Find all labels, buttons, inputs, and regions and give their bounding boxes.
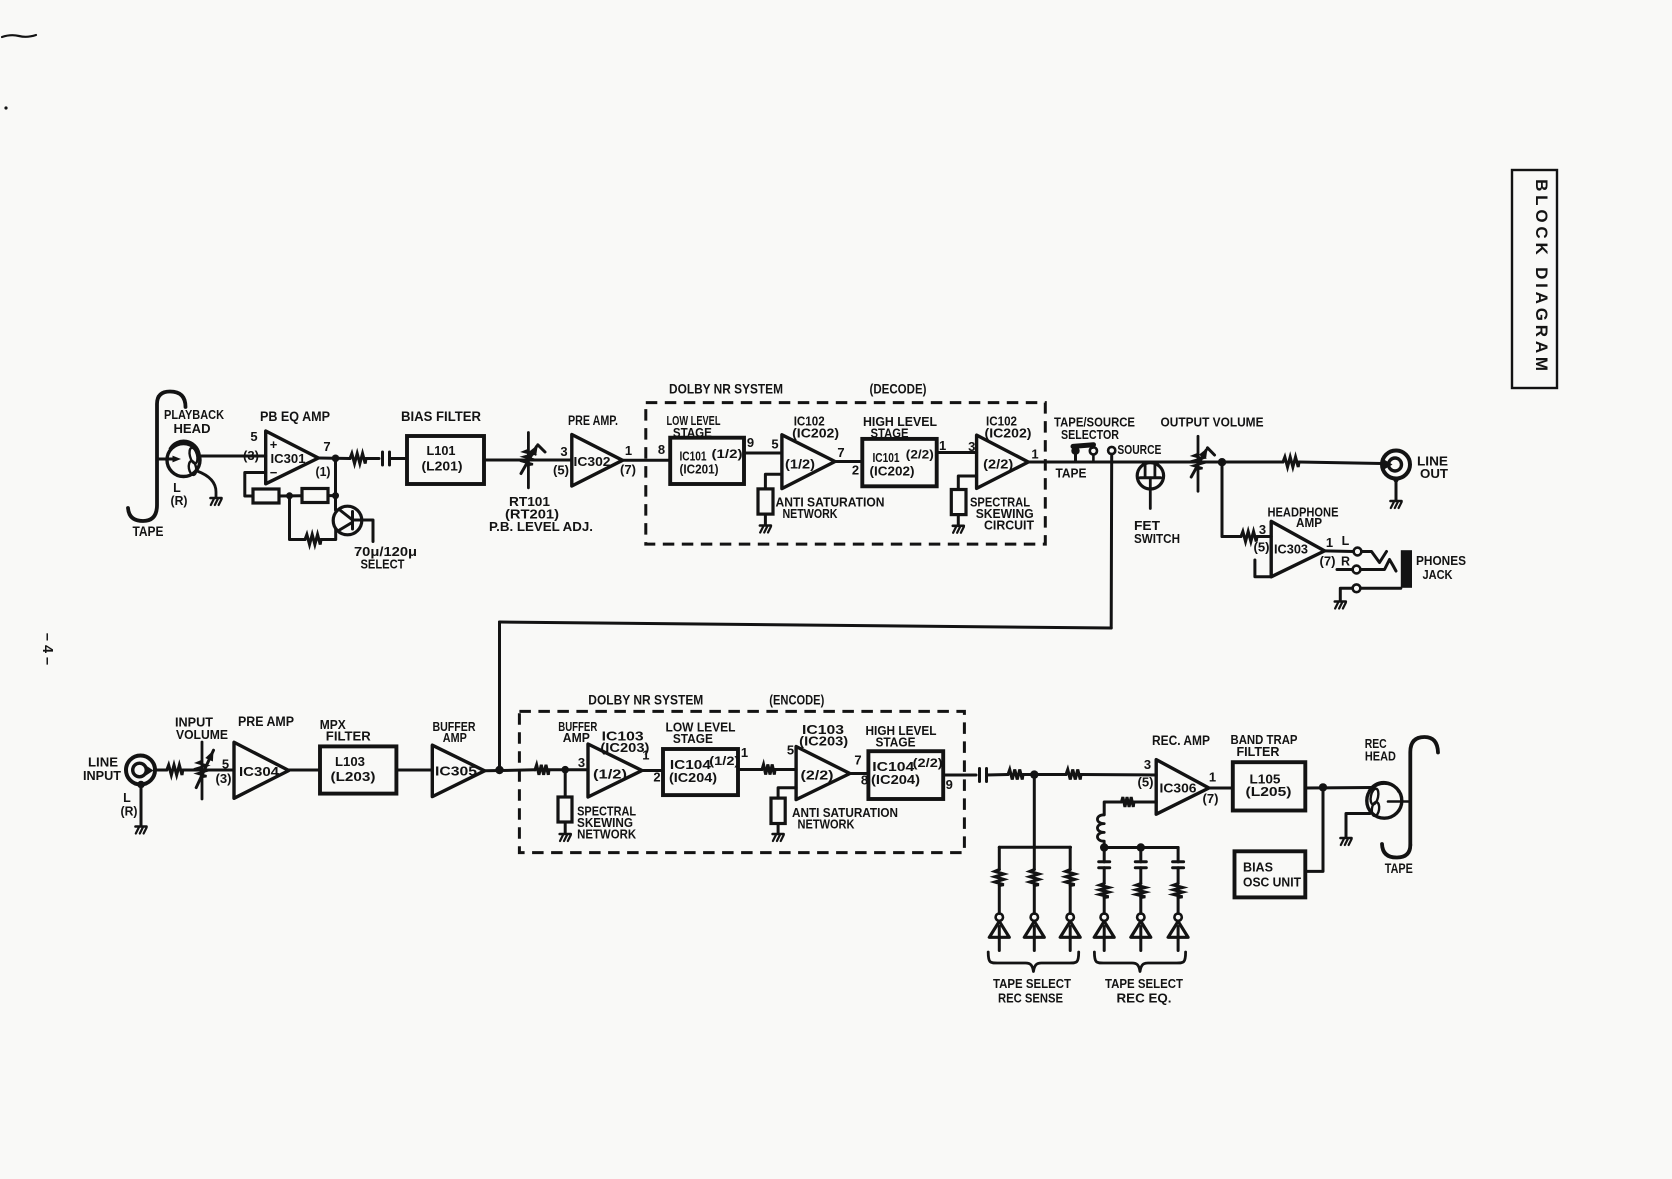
selector tape contact node bbox=[1071, 447, 1079, 455]
wire line out to ground bbox=[1395, 481, 1398, 500]
LINE INPUT jack bbox=[126, 756, 155, 785]
capacitor after IC301 bbox=[381, 452, 384, 465]
dashed box dolby NR decode bbox=[646, 403, 1046, 544]
wire decode output to selector and line out bbox=[1028, 461, 1283, 464]
svg-text:BIAS FILTER: BIAS FILTER bbox=[401, 409, 481, 424]
svg-text:AMP: AMP bbox=[1296, 516, 1322, 530]
svg-text:5: 5 bbox=[771, 437, 778, 452]
wire feedback resistor to output node bbox=[328, 494, 336, 497]
svg-text:(3): (3) bbox=[216, 772, 232, 786]
svg-text:JACK: JACK bbox=[1423, 568, 1453, 582]
svg-text:2: 2 bbox=[852, 463, 859, 478]
svg-text:–4–: –4– bbox=[39, 633, 55, 669]
svg-text:(5): (5) bbox=[1254, 541, 1270, 555]
selector arm bbox=[1073, 445, 1094, 447]
svg-text:SOURCE: SOURCE bbox=[1117, 443, 1161, 457]
wire lower feedback loop bbox=[290, 496, 306, 540]
svg-text:3: 3 bbox=[560, 444, 567, 459]
svg-text:STAGE: STAGE bbox=[871, 426, 909, 441]
svg-text:IC301: IC301 bbox=[271, 452, 306, 466]
feedback resistor IC306 bbox=[1121, 797, 1134, 807]
tape select rec eq element 3 bbox=[1174, 914, 1181, 921]
svg-text:NETWORK: NETWORK bbox=[577, 827, 637, 842]
svg-text:(ENCODE): (ENCODE) bbox=[769, 692, 824, 708]
svg-text:3: 3 bbox=[968, 439, 975, 454]
wire resistor ground encode bbox=[777, 824, 780, 833]
page smudge top-left bbox=[2, 35, 36, 37]
node rec sense junction bbox=[1030, 770, 1038, 778]
svg-text:VOLUME: VOLUME bbox=[176, 728, 228, 742]
BAND TRAP FILTER box L105 bbox=[1233, 762, 1306, 810]
wire capacitor to bias filter bbox=[390, 457, 408, 460]
tape select rec sense element 1 bbox=[996, 914, 1003, 921]
svg-text:PRE AMP.: PRE AMP. bbox=[568, 413, 618, 428]
svg-text:L103: L103 bbox=[335, 754, 365, 769]
svg-text:(L205): (L205) bbox=[1246, 784, 1292, 799]
svg-text:(1): (1) bbox=[316, 465, 331, 479]
svg-text:IC304: IC304 bbox=[239, 765, 279, 779]
resistor lower feedback bbox=[305, 535, 321, 545]
wire amp 1/2 to high level stage bbox=[835, 460, 862, 463]
svg-text:BIAS: BIAS bbox=[1243, 860, 1273, 875]
ground rec head bbox=[1341, 837, 1352, 840]
svg-text:CIRCUIT: CIRCUIT bbox=[984, 518, 1034, 533]
wire transistor to select control bbox=[353, 520, 374, 542]
svg-text:1: 1 bbox=[1031, 447, 1038, 462]
wire resistor to IC304 bbox=[183, 769, 234, 772]
resistor between stages encode bbox=[762, 765, 775, 775]
wire band trap to rec head bbox=[1305, 786, 1372, 790]
svg-text:7: 7 bbox=[854, 753, 861, 768]
ground phones jack bbox=[1335, 600, 1346, 603]
phones L spring contact bbox=[1362, 552, 1387, 563]
op-amp IC306 rec amp bbox=[1156, 760, 1209, 815]
wire IC304 to MPX filter bbox=[289, 769, 320, 772]
wire head to IC301 pin5 bbox=[200, 455, 266, 458]
wire lower loop to transistor bottom bbox=[321, 529, 336, 540]
resistor headphone amp input bbox=[1241, 532, 1257, 542]
svg-text:STAGE: STAGE bbox=[876, 735, 916, 750]
svg-text:IC104: IC104 bbox=[670, 758, 711, 772]
svg-text:(L203): (L203) bbox=[331, 769, 376, 784]
svg-text:SELECT: SELECT bbox=[361, 557, 405, 572]
svg-text:5: 5 bbox=[222, 757, 229, 772]
transistor 70u/120u select switch bbox=[333, 506, 362, 535]
svg-text:OUTPUT VOLUME: OUTPUT VOLUME bbox=[1161, 415, 1264, 430]
svg-text:L: L bbox=[1342, 534, 1350, 548]
MPX FILTER box L103 bbox=[320, 746, 396, 793]
svg-text:IC303: IC303 bbox=[1274, 543, 1308, 557]
rec eq branch 2 resistor bbox=[1136, 884, 1145, 898]
wire sleeve to jack bbox=[1361, 587, 1401, 590]
wire R channel stub bbox=[1337, 568, 1353, 571]
phones L contact bbox=[1354, 548, 1362, 556]
svg-text:(DECODE): (DECODE) bbox=[870, 381, 927, 397]
phones sleeve contact bbox=[1353, 584, 1361, 592]
svg-text:1: 1 bbox=[625, 443, 632, 458]
dashed box dolby NR encode bbox=[519, 711, 964, 852]
ground spectral skewing encode bbox=[560, 833, 571, 836]
svg-text:(1/2): (1/2) bbox=[712, 447, 743, 461]
svg-text:3: 3 bbox=[1144, 757, 1151, 772]
wire resistor to capacitor bbox=[366, 457, 379, 460]
BIAS OSC UNIT box bbox=[1235, 851, 1306, 897]
wire tape to head with arrow bbox=[157, 458, 173, 461]
LOW LEVEL STAGE box IC104 (1/2) bbox=[663, 749, 738, 795]
IC303 ground stub bbox=[1255, 560, 1271, 577]
svg-text:IC306: IC306 bbox=[1160, 781, 1197, 796]
svg-text:1: 1 bbox=[1326, 535, 1333, 550]
svg-text:REC EQ.: REC EQ. bbox=[1117, 991, 1172, 1006]
spectral skewing wire encode bbox=[564, 770, 567, 797]
LOW LEVEL STAGE box IC101 (1/2) bbox=[670, 438, 744, 484]
potentiometer RT101 PB level adj bbox=[527, 433, 530, 488]
capacitor before rec amp bbox=[978, 769, 981, 782]
svg-text:TAPE SELECT: TAPE SELECT bbox=[1105, 976, 1183, 991]
node line input sleeve bbox=[137, 781, 145, 789]
wire MPX to IC305 bbox=[396, 769, 432, 772]
playback head bbox=[167, 444, 200, 477]
wire IC302 to dolby decode bbox=[623, 459, 671, 462]
rec sense branch 3 resistor bbox=[1066, 870, 1075, 886]
svg-text:AMP: AMP bbox=[443, 731, 467, 745]
wire IC305 to dolby encode bbox=[485, 770, 535, 771]
svg-text:STAGE: STAGE bbox=[673, 731, 713, 746]
anti saturation resistor encode bbox=[771, 798, 785, 823]
potentiometer input volume bbox=[201, 742, 204, 799]
feedback resistor R-a box bbox=[253, 489, 279, 503]
wire amp to high level encode bbox=[850, 772, 869, 775]
spectral skewing resistor encode bbox=[558, 797, 572, 822]
svg-text:(IC204): (IC204) bbox=[669, 771, 717, 785]
rec sense branch 1 wire bbox=[998, 847, 1001, 869]
svg-text:(2/2): (2/2) bbox=[801, 769, 834, 783]
svg-text:(5): (5) bbox=[553, 464, 569, 478]
svg-text:(IC202): (IC202) bbox=[985, 426, 1032, 441]
selector fixed contact 1 bbox=[1090, 447, 1097, 454]
feedback wire IC301 inverting input bbox=[245, 473, 266, 497]
svg-text:(2/2): (2/2) bbox=[906, 448, 934, 462]
svg-text:NETWORK: NETWORK bbox=[798, 817, 856, 832]
wire low level to resistor bbox=[738, 768, 762, 771]
wire low level to amp 1/2 bbox=[744, 452, 782, 455]
spectral skewing resistor decode bbox=[951, 490, 966, 515]
node rec eq junction 1 bbox=[1100, 843, 1108, 851]
node after IC305 bbox=[495, 766, 503, 774]
tape select rec sense element 2 bbox=[1031, 914, 1038, 921]
svg-text:FILTER: FILTER bbox=[326, 730, 371, 744]
svg-text:(R): (R) bbox=[121, 805, 138, 819]
feedback wire IC306 bbox=[1134, 801, 1157, 804]
wire IC301 output bbox=[318, 457, 350, 461]
selector source contact bbox=[1108, 447, 1115, 454]
svg-text:(L201): (L201) bbox=[422, 459, 463, 474]
wire sleeve to ground bbox=[1340, 588, 1352, 600]
HIGH LEVEL STAGE box IC101 (2/2) bbox=[862, 439, 936, 486]
resistor into encode box bbox=[535, 765, 549, 775]
svg-text:9: 9 bbox=[747, 435, 754, 450]
op-amp IC302 pre amp bbox=[572, 435, 623, 487]
wire output node down to transistor bbox=[334, 458, 337, 510]
svg-text:SWITCH: SWITCH bbox=[1134, 532, 1180, 546]
phones jack body bbox=[1401, 550, 1412, 588]
rec eq branch 1 capacitor bbox=[1099, 860, 1110, 863]
wire high level to amp 2/2 bbox=[937, 451, 977, 454]
rec sense branch 1 resistor bbox=[995, 870, 1004, 886]
rec eq branch 2 wire bbox=[1139, 848, 1142, 862]
svg-text:IC101: IC101 bbox=[680, 450, 707, 464]
op-amp IC305 buffer amp bbox=[432, 745, 484, 796]
svg-text:PHONES: PHONES bbox=[1416, 554, 1466, 568]
svg-text:REC SENSE: REC SENSE bbox=[998, 991, 1063, 1006]
svg-text:IC305: IC305 bbox=[435, 765, 477, 779]
rec eq branch 2 capacitor bbox=[1135, 860, 1146, 863]
svg-text:(5): (5) bbox=[1138, 776, 1154, 790]
svg-text:TAPE: TAPE bbox=[1056, 467, 1087, 481]
op-amp IC304 pre amp bbox=[234, 742, 289, 798]
svg-text:PLAYBACK: PLAYBACK bbox=[164, 407, 225, 422]
brace tape select rec sense bbox=[988, 952, 1078, 972]
BLOCK DIAGRAM title box bbox=[1512, 170, 1557, 388]
svg-text:1: 1 bbox=[1209, 770, 1216, 785]
svg-text:(IC202): (IC202) bbox=[870, 465, 915, 479]
brace tape select rec eq bbox=[1094, 952, 1185, 972]
node below IC301 output bbox=[332, 492, 339, 499]
resistor after line input bbox=[167, 765, 183, 775]
rec sense branch 2 resistor bbox=[1030, 870, 1039, 886]
svg-text:7: 7 bbox=[323, 439, 330, 454]
wire buffer to low level encode bbox=[642, 769, 663, 772]
svg-text:SELECTOR: SELECTOR bbox=[1061, 428, 1119, 442]
svg-text:(7): (7) bbox=[1320, 555, 1336, 569]
op-amp IC103 (2/2) encode bbox=[796, 747, 850, 800]
spectral skewing wire decode bbox=[958, 476, 976, 490]
wire source monitor horizontal bbox=[500, 622, 1112, 628]
op-amp IC301 PB EQ AMP bbox=[266, 431, 319, 484]
rec eq branch 1 stem bbox=[1103, 848, 1106, 862]
rec eq branch 1 resistor bbox=[1100, 884, 1109, 898]
svg-text:7: 7 bbox=[837, 445, 844, 460]
wire between feedback resistors bbox=[279, 494, 302, 497]
wire to ground anti saturation bbox=[764, 514, 767, 524]
wire bias filter to pre amp bbox=[484, 459, 572, 462]
svg-text:IC302: IC302 bbox=[574, 455, 611, 469]
resistor rec chain 1 bbox=[1008, 770, 1023, 780]
svg-text:(IC201): (IC201) bbox=[680, 463, 719, 477]
svg-text:OSC UNIT: OSC UNIT bbox=[1243, 875, 1301, 890]
wire capacitor to resistor bbox=[987, 773, 1009, 777]
wire resistor to buffer junction bbox=[549, 768, 588, 771]
wire rec eq bus bbox=[1104, 846, 1178, 849]
tape select rec eq element 2 bbox=[1137, 914, 1144, 921]
wire line input to ground bbox=[140, 785, 143, 826]
svg-text:L101: L101 bbox=[427, 443, 456, 458]
wire resistor to ground encode bbox=[564, 822, 567, 833]
svg-text:(3): (3) bbox=[243, 449, 259, 463]
svg-text:AMP: AMP bbox=[563, 731, 590, 745]
feedback resistor R-b box bbox=[302, 489, 328, 503]
wire to ground spectral skewing bbox=[957, 515, 960, 525]
ground under playback head bbox=[211, 497, 222, 500]
node feedback junction A bbox=[286, 492, 293, 499]
wire high level out to capacitor bbox=[943, 774, 976, 777]
rec sense branch 3 wire bbox=[1069, 847, 1072, 869]
HIGH LEVEL STAGE box IC104 (2/2) bbox=[868, 751, 943, 799]
head ground wire bbox=[197, 471, 216, 497]
svg-text:TAPE SELECT: TAPE SELECT bbox=[993, 976, 1071, 991]
svg-text:BLOCK DIAGRAM: BLOCK DIAGRAM bbox=[1532, 179, 1551, 375]
svg-text:(IC202): (IC202) bbox=[792, 426, 839, 441]
anti saturation wire decode bbox=[765, 474, 782, 489]
svg-text:(1/2): (1/2) bbox=[785, 458, 815, 472]
LINE OUT jack bbox=[1382, 451, 1410, 479]
phones R spring contact bbox=[1361, 560, 1397, 572]
wire resistor to IC303 bbox=[1257, 535, 1271, 538]
potentiometer output volume bbox=[1197, 436, 1200, 491]
node after band trap bbox=[1319, 783, 1327, 791]
tape select rec sense element 3 bbox=[1067, 914, 1074, 921]
rec head ground wire bbox=[1346, 814, 1370, 837]
svg-text:(2/2): (2/2) bbox=[983, 458, 1013, 472]
op-amp IC303 headphone amp bbox=[1271, 521, 1324, 576]
wire resistor to amp 2/2 encode bbox=[775, 768, 796, 771]
svg-text:(7): (7) bbox=[1203, 792, 1219, 806]
op-amp IC103 (1/2) buffer bbox=[588, 744, 642, 797]
node IC301 output junction bbox=[332, 455, 340, 463]
wire source contact down bbox=[1110, 454, 1114, 628]
svg-text:HEAD: HEAD bbox=[174, 421, 211, 436]
wire junction to headphone resistor bbox=[1222, 535, 1241, 538]
inductor rec eq bbox=[1097, 815, 1104, 848]
svg-text:P.B. LEVEL ADJ.: P.B. LEVEL ADJ. bbox=[489, 519, 593, 534]
rec sense branch 2 wire bbox=[1033, 847, 1036, 869]
ground line input bbox=[136, 825, 147, 828]
rec head bbox=[1367, 783, 1402, 818]
svg-text:1: 1 bbox=[642, 748, 649, 763]
svg-text:FET: FET bbox=[1134, 519, 1160, 533]
wire bias osc to rec head node bbox=[1305, 787, 1323, 871]
svg-text:IC101: IC101 bbox=[873, 451, 900, 465]
svg-text:5: 5 bbox=[250, 429, 257, 444]
tape curve left bbox=[128, 392, 186, 522]
svg-text:TAPE: TAPE bbox=[133, 524, 164, 539]
resistor rec chain 2 bbox=[1066, 770, 1081, 780]
tape select rec eq element 1 bbox=[1101, 914, 1108, 921]
wire resistor to IC306 bbox=[1081, 773, 1156, 777]
svg-text:5: 5 bbox=[787, 743, 794, 758]
wire source monitor down to record chain bbox=[498, 622, 501, 770]
svg-text:3: 3 bbox=[1259, 522, 1266, 537]
svg-text:(1/2): (1/2) bbox=[593, 768, 627, 782]
op-amp IC102 (1/2) decode bbox=[782, 435, 835, 489]
wire rec sense down bbox=[1033, 775, 1036, 848]
svg-text:DOLBY NR SYSTEM: DOLBY NR SYSTEM bbox=[588, 692, 703, 708]
tape curve right bbox=[1410, 737, 1438, 845]
svg-text:L: L bbox=[173, 481, 181, 495]
ground anti saturation decode bbox=[760, 524, 771, 527]
svg-text:LINE: LINE bbox=[88, 756, 118, 770]
svg-text:L: L bbox=[123, 791, 131, 805]
svg-text:HEAD: HEAD bbox=[1365, 749, 1396, 764]
rec eq branch 3 capacitor bbox=[1173, 860, 1184, 863]
wire junction down to headphone amp bbox=[1221, 462, 1224, 536]
svg-text:(R): (R) bbox=[171, 494, 188, 508]
svg-text:(1/2): (1/2) bbox=[709, 754, 739, 768]
rec head gap line bbox=[1388, 800, 1408, 803]
node output volume junction bbox=[1218, 458, 1226, 466]
svg-text:INPUT: INPUT bbox=[83, 769, 121, 783]
BIAS FILTER box L101 bbox=[407, 436, 484, 484]
wire IC303 to phones L contact bbox=[1325, 549, 1354, 553]
svg-text:DOLBY NR SYSTEM: DOLBY NR SYSTEM bbox=[669, 381, 783, 397]
svg-text:1: 1 bbox=[939, 438, 946, 453]
svg-text:(7): (7) bbox=[620, 463, 636, 477]
anti saturation wire encode bbox=[778, 788, 796, 798]
svg-text:IC104: IC104 bbox=[872, 760, 914, 774]
ground spectral skewing decode bbox=[953, 524, 964, 527]
FET switch bbox=[1137, 463, 1163, 489]
svg-text:PRE AMP: PRE AMP bbox=[238, 714, 294, 729]
svg-text:REC. AMP: REC. AMP bbox=[1152, 733, 1210, 748]
svg-text:FILTER: FILTER bbox=[1237, 744, 1281, 759]
svg-text:(2/2): (2/2) bbox=[913, 756, 943, 770]
ground anti saturation encode bbox=[773, 833, 784, 836]
wire line input to resistor bbox=[155, 769, 167, 772]
svg-text:(IC204): (IC204) bbox=[871, 773, 920, 787]
svg-text:PB EQ AMP: PB EQ AMP bbox=[260, 409, 330, 424]
svg-text:TAPE: TAPE bbox=[1385, 861, 1413, 876]
svg-text:(IC203): (IC203) bbox=[799, 734, 848, 749]
svg-text:9: 9 bbox=[946, 777, 953, 792]
svg-text:+: + bbox=[270, 437, 278, 452]
phones R contact bbox=[1353, 566, 1361, 574]
op-amp IC102 (2/2) decode bbox=[977, 435, 1029, 488]
wire feedback to coil bbox=[1104, 802, 1121, 815]
rec eq branch 3 wire bbox=[1177, 848, 1180, 862]
rec sense bus bbox=[999, 846, 1070, 849]
resistor before line out bbox=[1283, 457, 1299, 467]
svg-text:STAGE: STAGE bbox=[673, 425, 712, 440]
rec eq branch 3 resistor bbox=[1174, 884, 1183, 898]
svg-text:1: 1 bbox=[741, 745, 748, 760]
node buffer amp input junction bbox=[561, 766, 569, 774]
svg-text:OUT: OUT bbox=[1420, 467, 1448, 481]
ground line out bbox=[1391, 500, 1402, 503]
svg-text:3: 3 bbox=[578, 755, 585, 770]
wire resistor to junction bbox=[1023, 773, 1066, 776]
wire IC306 to band trap bbox=[1209, 787, 1233, 790]
resistor after IC301 bbox=[350, 454, 366, 464]
anti saturation resistor decode bbox=[758, 489, 773, 514]
svg-text:8: 8 bbox=[658, 442, 665, 457]
node rec eq junction 2 bbox=[1137, 843, 1145, 851]
svg-text:NETWORK: NETWORK bbox=[783, 506, 838, 521]
wire resistor to line out bbox=[1299, 462, 1382, 464]
svg-text:−: − bbox=[270, 465, 278, 480]
svg-text:R: R bbox=[1341, 555, 1350, 569]
